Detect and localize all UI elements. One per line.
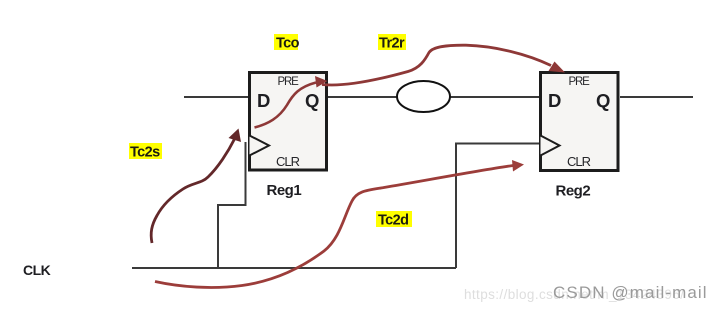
svg-text:Tr2r: Tr2r xyxy=(379,36,405,52)
svg-text:CSDN @mail-mail: CSDN @mail-mail xyxy=(553,283,708,302)
Reg2 clock input triangle xyxy=(541,136,560,156)
wire Q output of Reg2 xyxy=(620,96,693,98)
wire CLK horizontal net xyxy=(132,267,456,269)
svg-text:Reg1: Reg1 xyxy=(267,182,302,199)
svg-text:Q: Q xyxy=(596,90,610,111)
timing label Tr2r xyxy=(378,34,406,52)
wire node ellipse to D input of Reg2 xyxy=(450,96,540,98)
svg-text:Tco: Tco xyxy=(276,36,300,52)
svg-text:D: D xyxy=(548,90,561,111)
svg-text:CLR: CLR xyxy=(567,154,591,169)
timing label Tc2s xyxy=(129,143,162,161)
svg-text:Tc2d: Tc2d xyxy=(378,213,408,229)
flip-flop U2 Reg2 body xyxy=(541,73,619,171)
svg-text:Reg2: Reg2 xyxy=(556,182,591,199)
wire CLK branch to Reg1 clock pin xyxy=(218,142,246,268)
svg-text:CLR: CLR xyxy=(276,154,300,169)
timing label Tco xyxy=(274,34,300,52)
svg-text:PRE: PRE xyxy=(569,76,591,88)
annotation arrow Tco (clock-to-output inside Reg1) xyxy=(255,76,328,128)
annotation arrow Tc2d (clock to Reg2 delay) xyxy=(155,160,524,287)
svg-text:Tc2s: Tc2s xyxy=(130,145,160,161)
svg-text:Q: Q xyxy=(305,90,319,111)
wire Q output of Reg1 to node ellipse xyxy=(328,96,398,98)
annotation arrow Tr2r (Reg1.Q to Reg2.PRE) xyxy=(322,45,565,85)
svg-text:D: D xyxy=(257,90,270,111)
annotation arrow Tc2s (clock to setup at Reg1) xyxy=(151,129,241,244)
Reg1 clock input triangle xyxy=(250,136,270,156)
timing label Tc2d xyxy=(376,211,412,229)
flip-flop U1 Reg1 body xyxy=(250,73,327,171)
svg-text:CLK: CLK xyxy=(23,262,51,278)
wire CLK branch to Reg2 clock pin xyxy=(456,144,540,269)
wire D input of Reg1 xyxy=(184,96,248,98)
svg-text:PRE: PRE xyxy=(278,76,300,88)
node ellipse on net between Reg1.Q and Reg2.D xyxy=(397,81,450,112)
